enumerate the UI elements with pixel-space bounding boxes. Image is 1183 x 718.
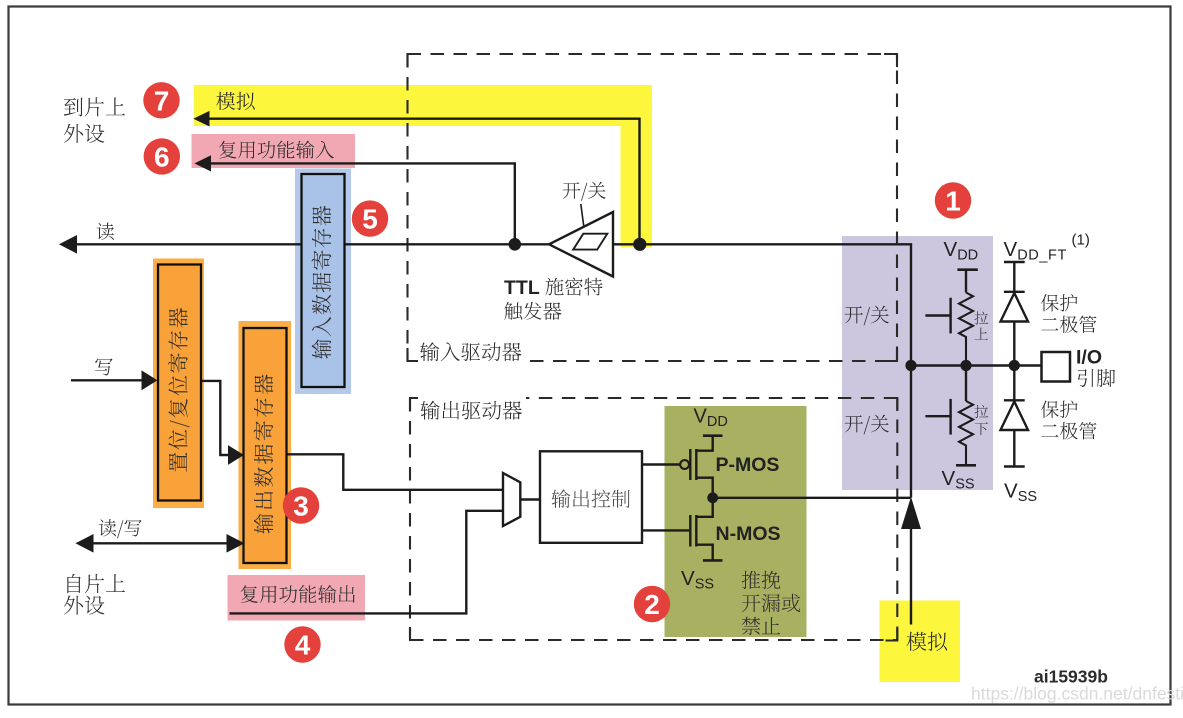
label: on/off (schmitt) — [563, 182, 606, 201]
node: pull resistors junction — [960, 360, 971, 371]
marker circle 7 — [143, 82, 179, 118]
node: protection diodes junction — [1009, 360, 1020, 371]
label: protection diode upper — [1041, 294, 1078, 312]
wire: analog (7) black line with left arrow — [208, 119, 640, 245]
pull-up/pull-down purple highlight box — [842, 236, 993, 490]
label: push-pull / open-drain / disabled — [742, 571, 781, 589]
analog yellow box (bottom) — [880, 601, 961, 683]
wire: output control to N-MOS gate — [642, 529, 690, 531]
wire: output control to P-MOS gate — [642, 463, 680, 465]
AF output pink highlight — [228, 575, 366, 621]
label: from on-chip peripherals — [67, 574, 125, 593]
I/O pad square — [1042, 352, 1071, 382]
svg-text:(1): (1) — [1072, 232, 1090, 249]
wire: output data reg to mux top input — [287, 454, 503, 490]
label: to on-chip peripherals — [64, 97, 125, 116]
svg-text:1: 1 — [945, 186, 961, 217]
marker circle 2 — [634, 586, 670, 622]
label: on/off (pull-up) — [845, 306, 889, 326]
svg-text:VSS: VSS — [1004, 480, 1037, 506]
svg-text:VDD_FT: VDD_FT — [1004, 238, 1067, 264]
svg-text:N-MOS: N-MOS — [716, 523, 781, 545]
transistor P-MOS — [680, 436, 722, 498]
TTL schmitt trigger U1 — [549, 204, 613, 277]
svg-text:TTL: TTL — [504, 277, 540, 299]
marker circle 6 — [144, 138, 180, 174]
node: P-MOS/N-MOS output junction — [707, 492, 718, 503]
label: read — [97, 223, 114, 240]
svg-text:I/O: I/O — [1076, 347, 1102, 369]
wire: mux output to output control — [520, 498, 540, 500]
label: write — [95, 358, 113, 375]
output data register halo — [239, 321, 292, 569]
input driver dashed box — [408, 54, 898, 361]
wire: set/reset reg to output data reg — [202, 381, 230, 455]
AF input pink highlight — [192, 134, 356, 168]
label: analog (bottom) — [907, 632, 948, 651]
wire: schmitt output to right corner, down to I/O node — [613, 244, 911, 497]
wire: AF output to mux bottom input — [230, 511, 504, 614]
svg-text:2: 2 — [644, 589, 660, 620]
marker circle 4 — [284, 626, 320, 662]
bit set/reset register box — [158, 265, 201, 501]
protection diode lower D2 — [1001, 366, 1029, 467]
marker circle 1 — [935, 182, 971, 218]
node: I/O row left junction — [905, 360, 916, 371]
label: read/write — [99, 519, 142, 538]
push-pull green highlight box — [665, 406, 807, 637]
svg-text:4: 4 — [295, 630, 311, 661]
node: schmitt input / analog junction — [633, 238, 646, 251]
node: schmitt output / AF input junction — [509, 238, 522, 251]
svg-text:5: 5 — [362, 204, 378, 235]
mux (AF/output select) — [503, 473, 520, 526]
label: input driver — [420, 342, 521, 361]
analog path yellow highlight (top) — [194, 85, 652, 247]
marker circle 3 — [283, 487, 319, 523]
wire: write arrow into set/reset register — [71, 379, 143, 381]
label: pull-up (vertical) — [975, 311, 989, 324]
pull-down switched resistor — [925, 366, 976, 466]
label: protection diode lower — [1041, 401, 1078, 419]
output data register box (3) — [244, 328, 287, 563]
label: AF output — [241, 585, 355, 603]
protection diode upper D1 — [1001, 262, 1029, 366]
bit set/reset register halo — [153, 259, 204, 509]
label: analog (top) — [216, 92, 255, 110]
svg-text:7: 7 — [154, 85, 170, 116]
output control box — [540, 451, 642, 543]
wire: AF input (6) with left arrow — [210, 163, 515, 244]
svg-text:https://blog.csdn.net/dnfestiv: https://blog.csdn.net/dnfestivi — [971, 684, 1183, 704]
label: AF input — [219, 141, 334, 159]
wire: read/write double arrow — [89, 542, 230, 544]
input data register halo — [295, 169, 351, 395]
transistor N-MOS — [690, 498, 722, 561]
wire: push-pull output to I/O column — [713, 497, 911, 499]
svg-text:P-MOS: P-MOS — [716, 454, 780, 476]
wire: I/O pad row — [911, 364, 1042, 366]
input data register box (5) — [302, 174, 345, 387]
label: on/off (pull-down) — [845, 415, 889, 435]
label: output driver — [421, 401, 522, 420]
wire: analog connection from bottom analog box, up arrow — [910, 528, 912, 625]
svg-text:6: 6 — [154, 141, 170, 172]
svg-text:3: 3 — [293, 491, 309, 522]
wire: read line with left arrow — [75, 243, 549, 245]
label: pull-down (vertical) — [975, 405, 989, 418]
pull-up switched resistor — [925, 270, 977, 366]
output driver dashed box — [410, 398, 897, 641]
marker circle 5 — [352, 200, 388, 236]
